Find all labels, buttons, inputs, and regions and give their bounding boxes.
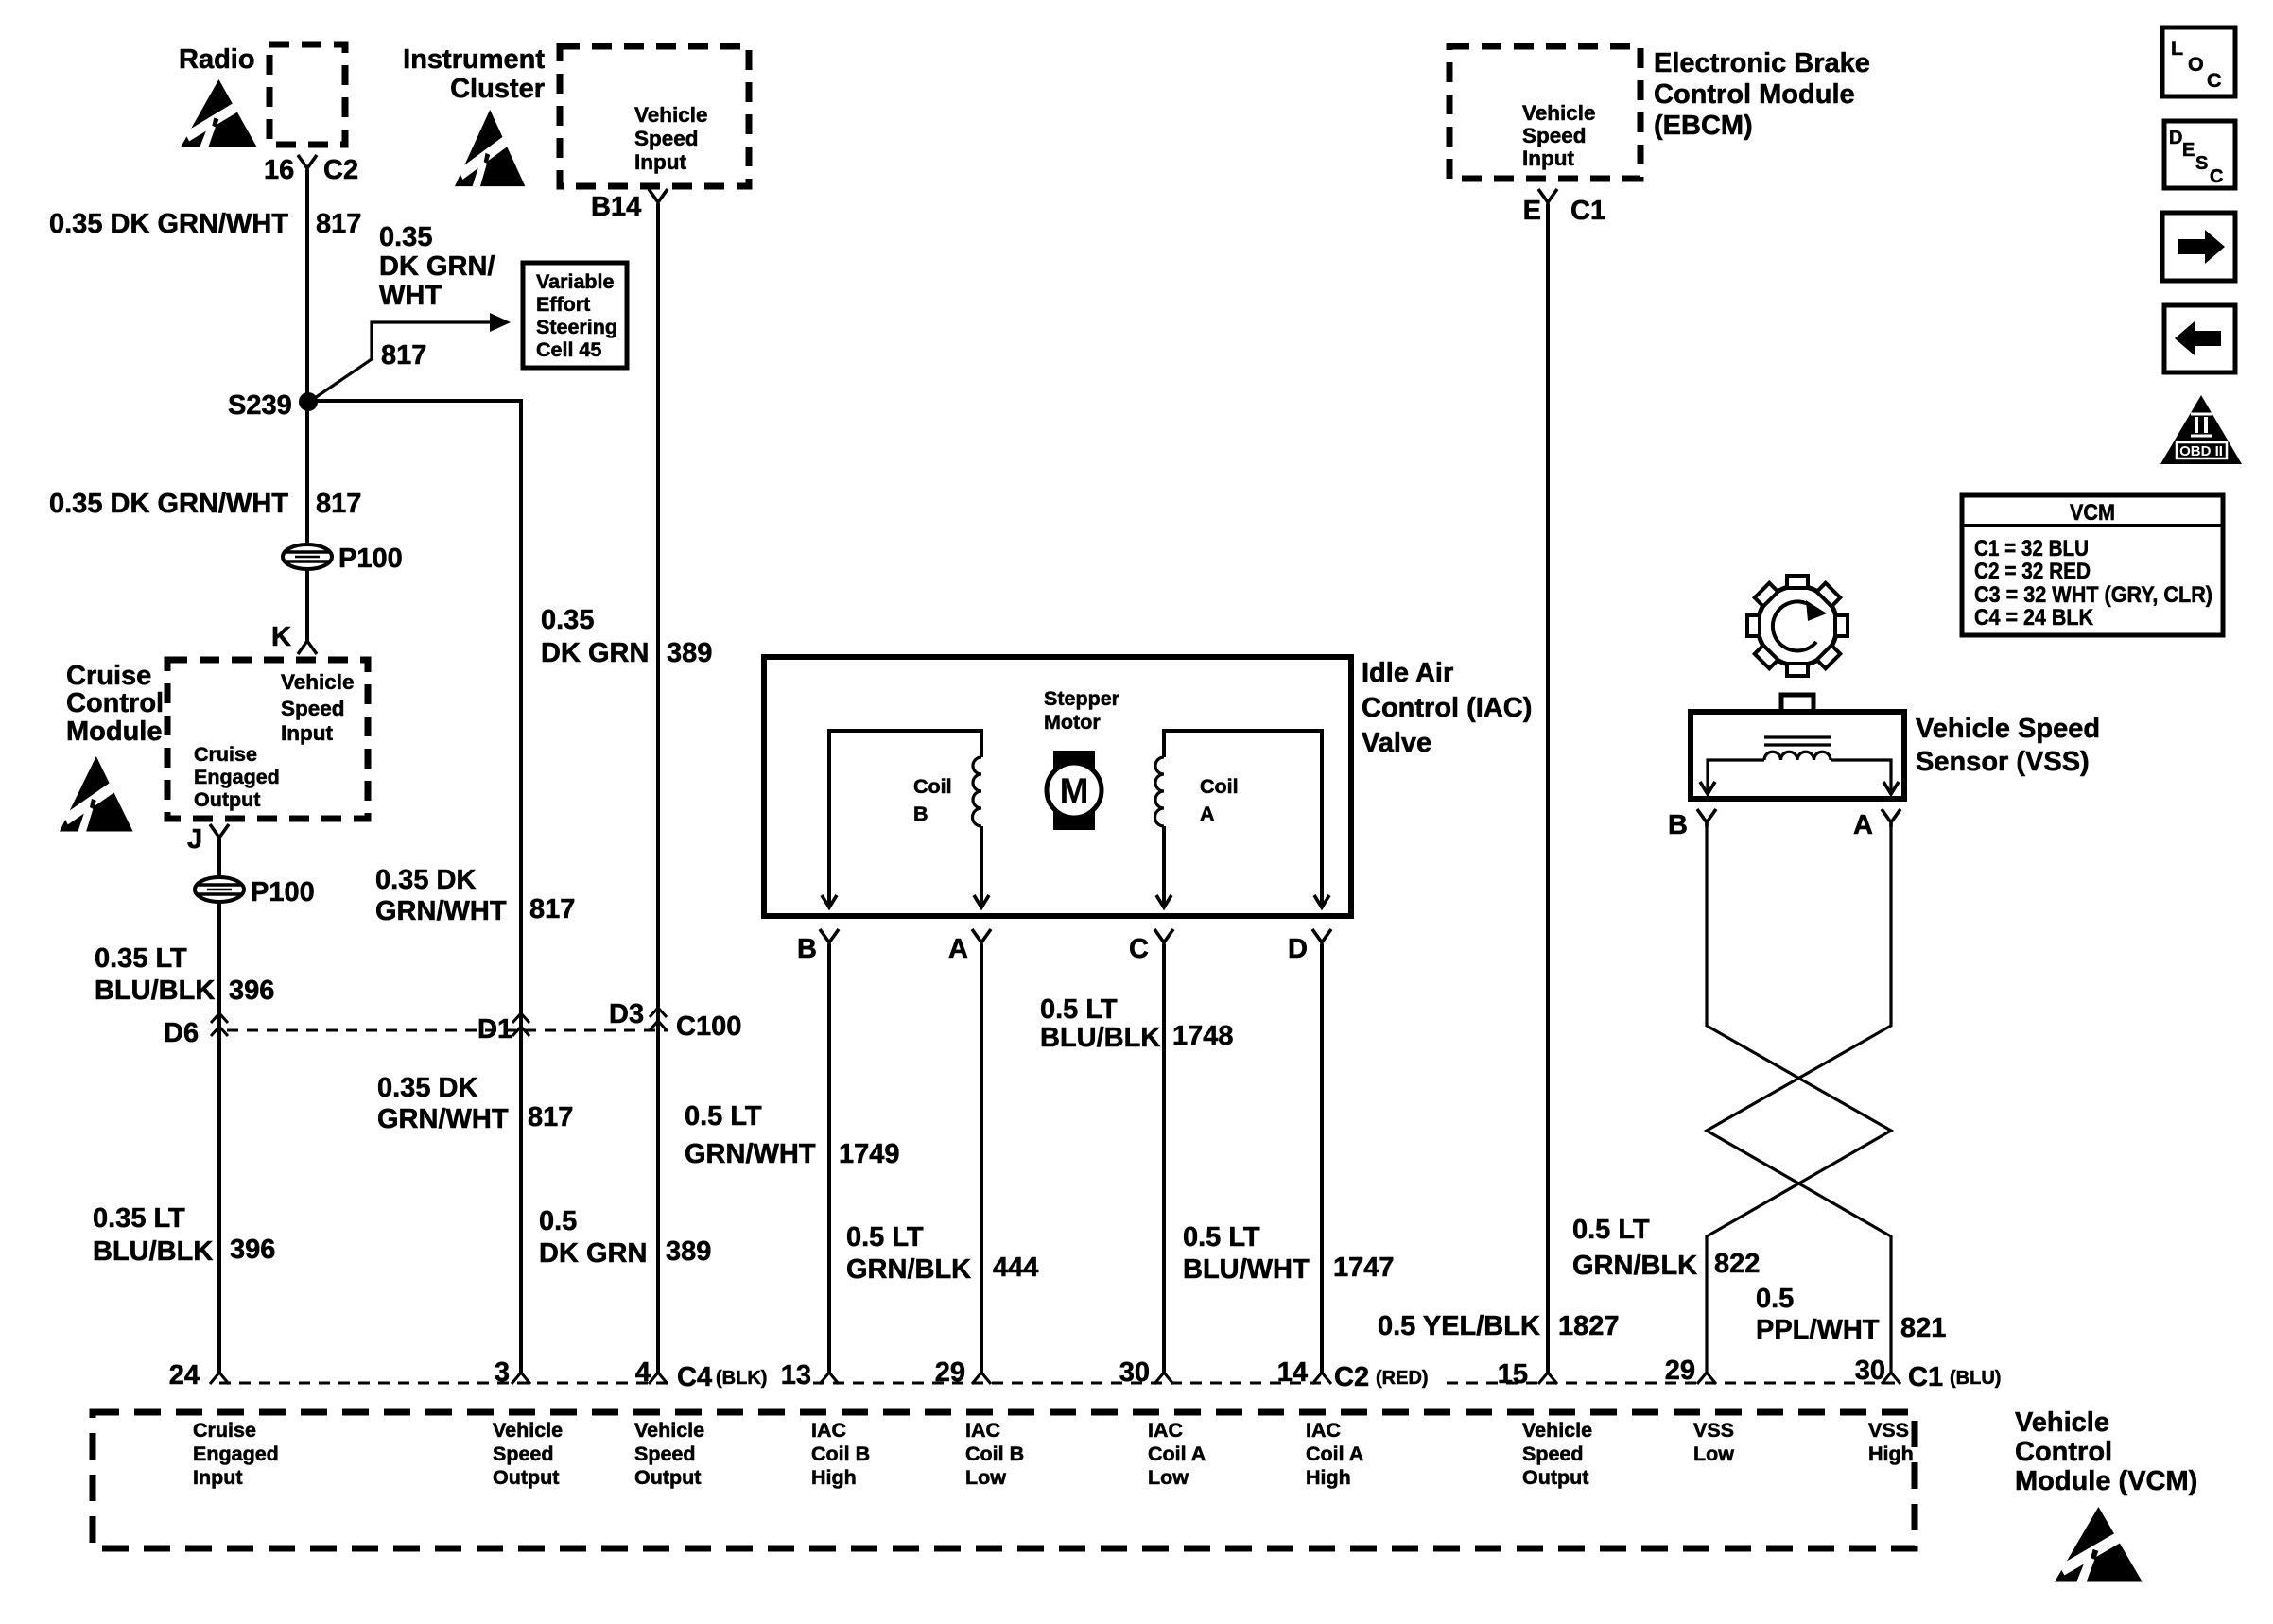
svg-text:Cruise: Cruise	[66, 661, 151, 691]
svg-text:High: High	[1306, 1466, 1351, 1489]
svg-text:VSS: VSS	[1868, 1419, 1909, 1442]
svg-text:C1: C1	[1570, 196, 1605, 226]
svg-text:Coil: Coil	[913, 775, 952, 798]
svg-text:Speed: Speed	[281, 697, 345, 720]
svg-text:D1: D1	[477, 1014, 512, 1045]
svg-text:Input: Input	[281, 721, 333, 745]
svg-text:29: 29	[1665, 1356, 1695, 1386]
svg-text:389: 389	[667, 638, 712, 668]
ESD symbol Radio	[181, 79, 257, 147]
svg-text:Instrument: Instrument	[403, 44, 545, 75]
connector fork C2 pin 16	[298, 155, 317, 173]
VCM connector table	[1962, 495, 2223, 635]
svg-text:Vehicle: Vehicle	[1522, 1419, 1592, 1442]
svg-text:0.5 LT: 0.5 LT	[685, 1101, 762, 1132]
grommet P100 (radio wire)	[283, 544, 332, 569]
svg-text:Speed: Speed	[1522, 1443, 1584, 1465]
icon LOC	[2162, 27, 2235, 96]
svg-text:Cluster: Cluster	[450, 74, 545, 104]
svg-text:0.5: 0.5	[1756, 1284, 1794, 1314]
svg-text:Output: Output	[493, 1466, 559, 1489]
svg-text:P100: P100	[338, 544, 403, 574]
svg-text:C3 = 32 WHT (GRY, CLR): C3 = 32 WHT (GRY, CLR)	[1974, 582, 2212, 608]
svg-text:Coil B: Coil B	[965, 1443, 1024, 1465]
svg-text:Engaged: Engaged	[193, 1443, 279, 1465]
svg-text:1748: 1748	[1172, 1021, 1234, 1051]
svg-text:O: O	[2188, 53, 2204, 76]
svg-text:0.35 LT: 0.35 LT	[93, 1203, 185, 1234]
wire 1749	[827, 944, 831, 1373]
svg-text:Coil B: Coil B	[811, 1443, 870, 1465]
svg-text:IAC: IAC	[965, 1419, 1000, 1442]
svg-text:444: 444	[993, 1253, 1038, 1283]
svg-text:0.5: 0.5	[539, 1206, 577, 1236]
svg-text:VCM: VCM	[2070, 500, 2115, 526]
svg-text:Low: Low	[1148, 1466, 1189, 1489]
wire 396 upper	[217, 839, 221, 878]
svg-text:(BLU): (BLU)	[1950, 1368, 2001, 1389]
IAC valve box	[764, 657, 1351, 916]
wire 817 below S239	[305, 402, 309, 546]
svg-text:Vehicle: Vehicle	[2015, 1408, 2109, 1438]
svg-text:C4: C4	[677, 1362, 712, 1392]
svg-text:S239: S239	[228, 390, 292, 421]
svg-text:0.5 LT: 0.5 LT	[846, 1222, 924, 1253]
svg-text:0.5 LT: 0.5 LT	[1572, 1215, 1650, 1245]
svg-text:C1: C1	[1908, 1362, 1943, 1392]
svg-text:0.35: 0.35	[541, 605, 594, 635]
svg-text:3: 3	[495, 1357, 510, 1388]
VSS box	[1691, 712, 1904, 799]
svg-text:16: 16	[264, 155, 294, 185]
svg-text:B: B	[797, 934, 817, 964]
svg-text:(BLK): (BLK)	[716, 1368, 767, 1389]
svg-text:M: M	[1060, 771, 1089, 810]
svg-text:Cruise: Cruise	[193, 1419, 256, 1442]
svg-text:DK GRN: DK GRN	[539, 1238, 647, 1269]
svg-text:Vehicle Speed: Vehicle Speed	[1916, 714, 2100, 744]
coil B wiring	[829, 731, 981, 906]
svg-text:Engaged: Engaged	[194, 766, 280, 788]
wire 389 vertical	[656, 204, 660, 1373]
VSS internal wires with arrows	[1708, 760, 1764, 790]
svg-text:389: 389	[666, 1236, 711, 1267]
svg-text:817: 817	[316, 489, 361, 519]
svg-text:29: 29	[935, 1357, 965, 1388]
svg-text:1827: 1827	[1558, 1311, 1620, 1341]
svg-text:P100: P100	[251, 877, 315, 907]
svg-text:30: 30	[1119, 1357, 1150, 1388]
svg-text:GRN/BLK: GRN/BLK	[1572, 1251, 1697, 1281]
twisted pair wire A (821)	[1707, 824, 1891, 1373]
svg-text:1747: 1747	[1333, 1253, 1395, 1283]
Instrument Cluster box	[560, 46, 749, 186]
svg-text:E: E	[1523, 196, 1541, 226]
wire 444	[980, 944, 983, 1373]
svg-text:0.35 DK: 0.35 DK	[375, 865, 476, 895]
coil B arrowheads	[822, 895, 837, 907]
VSS box tab	[1781, 695, 1813, 712]
svg-text:Cruise: Cruise	[194, 743, 257, 766]
icon OBD II triangle	[2160, 395, 2242, 464]
svg-text:0.5 LT: 0.5 LT	[1040, 994, 1118, 1025]
svg-text:Stepper: Stepper	[1044, 687, 1120, 710]
svg-text:Control: Control	[66, 688, 164, 718]
svg-text:C: C	[2207, 69, 2222, 92]
svg-text:Coil: Coil	[1200, 775, 1239, 798]
svg-text:Electronic Brake: Electronic Brake	[1654, 48, 1870, 78]
svg-text:0.35 LT: 0.35 LT	[95, 943, 187, 974]
svg-text:0.35 DK GRN/WHT: 0.35 DK GRN/WHT	[49, 489, 288, 519]
VSS reluctor gear	[1726, 555, 1868, 697]
svg-text:Motor: Motor	[1044, 711, 1101, 734]
svg-text:0.35 DK GRN/WHT: 0.35 DK GRN/WHT	[49, 209, 288, 239]
svg-text:BLU/BLK: BLU/BLK	[93, 1236, 213, 1267]
svg-text:D6: D6	[164, 1018, 199, 1048]
svg-text:B: B	[1668, 810, 1688, 840]
svg-text:822: 822	[1714, 1249, 1760, 1279]
svg-text:C: C	[1129, 934, 1149, 964]
svg-text:D: D	[1288, 934, 1308, 964]
svg-text:24: 24	[169, 1360, 200, 1391]
svg-text:Speed: Speed	[634, 127, 699, 150]
svg-text:Vehicle: Vehicle	[634, 1419, 704, 1442]
twisted pair wire B (822)	[1707, 824, 1891, 1373]
wire branch S239 to D1 (horizontal)	[308, 401, 521, 1373]
svg-text:0.35 DK: 0.35 DK	[377, 1073, 477, 1103]
svg-text:C: C	[2210, 166, 2223, 187]
wire 817 radio segment	[305, 170, 309, 402]
wire to K	[305, 568, 309, 643]
svg-text:GRN/WHT: GRN/WHT	[685, 1139, 816, 1169]
svg-text:14: 14	[1277, 1357, 1308, 1388]
svg-text:PPL/WHT: PPL/WHT	[1756, 1315, 1880, 1345]
svg-text:13: 13	[781, 1360, 811, 1391]
svg-text:Input: Input	[193, 1466, 243, 1489]
svg-text:IAC: IAC	[1148, 1419, 1183, 1442]
svg-text:S: S	[2195, 153, 2208, 174]
svg-text:K: K	[271, 622, 291, 652]
svg-text:C2: C2	[1334, 1362, 1369, 1392]
svg-text:396: 396	[229, 976, 274, 1006]
ESD symbol Cruise Control Module	[60, 756, 133, 832]
VSS core lines	[1764, 737, 1831, 745]
svg-text:BLU/WHT: BLU/WHT	[1183, 1254, 1310, 1285]
svg-text:WHT: WHT	[379, 281, 442, 311]
svg-text:Input: Input	[1522, 147, 1574, 170]
svg-text:IAC: IAC	[811, 1419, 846, 1442]
svg-text:DK GRN: DK GRN	[541, 638, 649, 668]
svg-text:Output: Output	[194, 788, 260, 811]
svg-text:Valve: Valve	[1362, 728, 1431, 758]
svg-text:Output: Output	[1522, 1466, 1588, 1489]
svg-text:0.5 LT: 0.5 LT	[1183, 1222, 1260, 1253]
svg-text:817: 817	[381, 340, 426, 371]
svg-text:D: D	[2169, 128, 2182, 148]
svg-text:DK GRN/: DK GRN/	[379, 251, 495, 282]
VCM connector row dashed line	[219, 1382, 671, 1385]
svg-text:BLU/BLK: BLU/BLK	[1040, 1023, 1160, 1053]
svg-text:IAC: IAC	[1306, 1419, 1341, 1442]
svg-text:OBD II: OBD II	[2179, 443, 2223, 459]
svg-text:Input: Input	[634, 150, 686, 174]
svg-text:B: B	[913, 803, 928, 825]
svg-text:Speed: Speed	[1522, 124, 1587, 147]
icon arrow right	[2162, 213, 2235, 281]
svg-text:Vehicle: Vehicle	[634, 103, 708, 127]
icon arrow left	[2164, 305, 2235, 372]
VCM box dashed	[93, 1412, 1915, 1548]
svg-text:Control Module: Control Module	[1654, 79, 1855, 110]
svg-text:Sensor (VSS): Sensor (VSS)	[1916, 747, 2090, 777]
svg-text:Vehicle: Vehicle	[1522, 101, 1596, 125]
svg-text:Cell 45: Cell 45	[536, 338, 601, 361]
ESD symbol Instrument Cluster	[455, 110, 525, 186]
svg-text:Coil A: Coil A	[1148, 1443, 1206, 1465]
splice S239 dot	[299, 392, 318, 411]
svg-text:Vehicle: Vehicle	[493, 1419, 563, 1442]
svg-text:Low: Low	[965, 1466, 1006, 1489]
svg-text:817: 817	[528, 1102, 573, 1132]
svg-text:Low: Low	[1693, 1443, 1734, 1465]
svg-text:15: 15	[1498, 1359, 1528, 1390]
wire 396 lower	[217, 901, 221, 1373]
wire branch to Variable Effort Steering (arrow)	[312, 322, 494, 400]
svg-text:BLU/BLK: BLU/BLK	[95, 976, 215, 1006]
connector fork B14	[649, 189, 668, 207]
wire 1827	[1546, 204, 1550, 1373]
EBCM box	[1449, 46, 1640, 179]
svg-text:817: 817	[316, 209, 361, 239]
svg-text:A: A	[1200, 803, 1215, 825]
wire 1748	[1162, 944, 1166, 1373]
coil A wiring	[1164, 731, 1322, 906]
svg-text:396: 396	[230, 1235, 275, 1265]
icon DESC	[2164, 121, 2235, 188]
svg-text:High: High	[811, 1466, 857, 1489]
svg-text:C100: C100	[676, 1011, 741, 1042]
wire 1747	[1320, 944, 1324, 1373]
VSS inductor	[1764, 752, 1831, 760]
svg-text:C2 = 32 RED: C2 = 32 RED	[1974, 559, 2091, 584]
svg-text:0.5 YEL/BLK: 0.5 YEL/BLK	[1378, 1311, 1540, 1341]
svg-text:(RED): (RED)	[1376, 1368, 1429, 1389]
svg-text:0.35: 0.35	[379, 222, 432, 252]
Variable Effort Steering box	[523, 263, 627, 368]
coil A arrowheads	[1156, 895, 1171, 907]
svg-text:J: J	[187, 824, 202, 855]
svg-text:Speed: Speed	[493, 1443, 554, 1465]
svg-text:Output: Output	[634, 1466, 701, 1489]
Radio connector box	[269, 44, 345, 145]
svg-text:L: L	[2171, 37, 2183, 60]
svg-text:Module (VCM): Module (VCM)	[2015, 1466, 2197, 1496]
connector C100 dashed line	[227, 1029, 668, 1032]
svg-text:Control: Control	[2015, 1437, 2112, 1467]
svg-text:B14: B14	[591, 192, 641, 222]
svg-text:VSS: VSS	[1693, 1419, 1734, 1442]
svg-text:Vehicle: Vehicle	[281, 670, 355, 694]
svg-text:Effort: Effort	[536, 293, 590, 316]
svg-text:Variable: Variable	[536, 270, 615, 293]
svg-text:30: 30	[1855, 1356, 1885, 1386]
grommet P100 (cruise wire)	[195, 877, 244, 902]
svg-text:Control (IAC): Control (IAC)	[1362, 693, 1532, 723]
svg-text:C2: C2	[323, 155, 358, 185]
svg-text:D3: D3	[609, 999, 644, 1029]
Cruise Control Module box	[167, 660, 368, 819]
svg-text:(EBCM): (EBCM)	[1654, 111, 1753, 141]
svg-text:GRN/BLK: GRN/BLK	[846, 1254, 971, 1285]
svg-text:821: 821	[1900, 1313, 1946, 1343]
svg-text:1749: 1749	[839, 1139, 900, 1169]
svg-text:Steering: Steering	[536, 316, 617, 338]
svg-text:High: High	[1868, 1443, 1914, 1465]
svg-text:Radio: Radio	[179, 44, 255, 75]
svg-text:Module: Module	[66, 717, 163, 747]
svg-text:A: A	[1853, 810, 1873, 840]
svg-text:E: E	[2182, 140, 2195, 161]
svg-text:817: 817	[529, 894, 575, 924]
svg-text:A: A	[948, 934, 968, 964]
svg-text:Speed: Speed	[634, 1443, 696, 1465]
ESD symbol VCM	[2055, 1507, 2143, 1582]
stepper motor M	[1053, 751, 1095, 830]
svg-text:C4 = 24 BLK: C4 = 24 BLK	[1974, 605, 2094, 631]
svg-text:C1 = 32 BLU: C1 = 32 BLU	[1974, 536, 2089, 561]
svg-text:Idle Air: Idle Air	[1362, 658, 1453, 688]
svg-text:GRN/WHT: GRN/WHT	[377, 1104, 509, 1134]
svg-text:Coil A: Coil A	[1306, 1443, 1363, 1465]
svg-text:GRN/WHT: GRN/WHT	[375, 896, 507, 926]
